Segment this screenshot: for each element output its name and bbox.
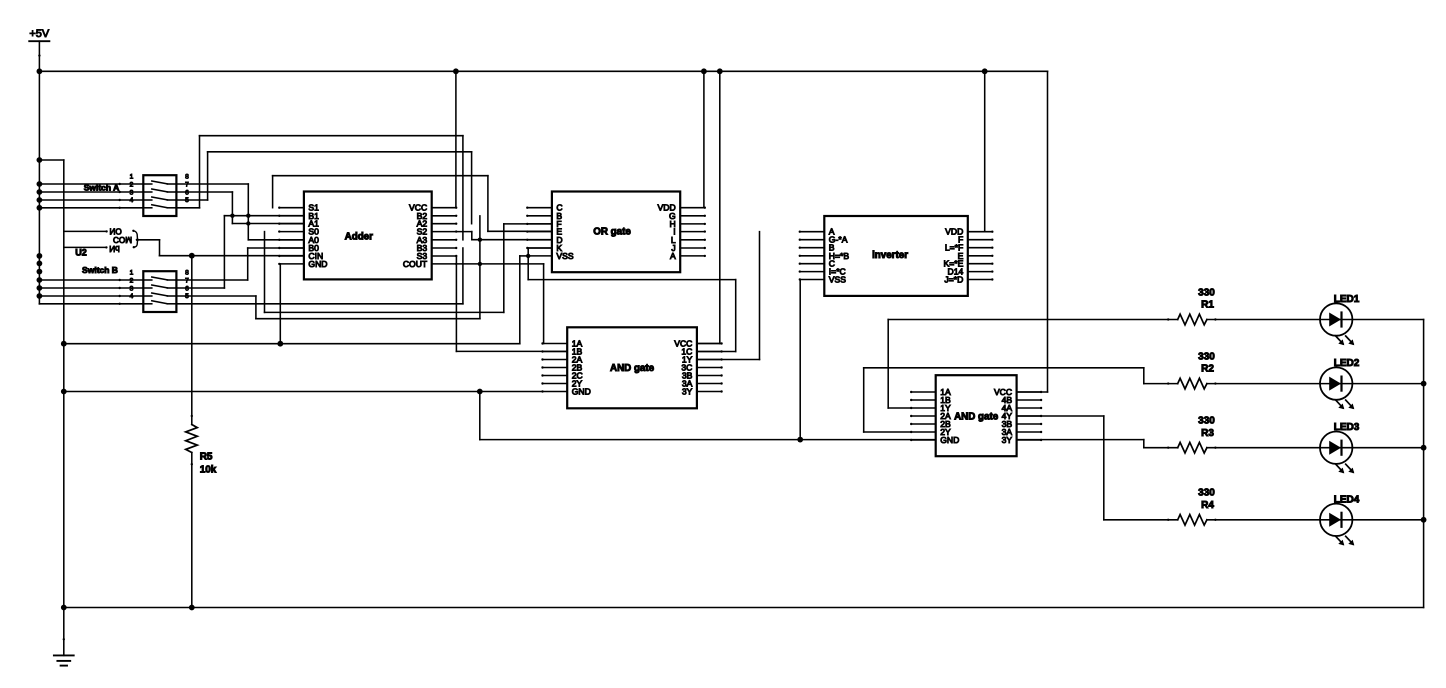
wire: U2 NO pin to +5V net: [64, 230, 108, 232]
AND gate 2 left pin labels: [940, 387, 959, 445]
wire: long left vertical (x=64): [63, 160, 65, 608]
svg-text:COM: COM: [113, 235, 132, 244]
stray junction dot on COUT wire: [478, 262, 482, 266]
junctions on +5V feeder at switch B rows: [37, 277, 43, 299]
stray junction dot on D wire: [478, 238, 482, 242]
svg-text:4: 4: [130, 293, 134, 300]
wire: ground net horizontal (left): [64, 343, 520, 345]
svg-text:+5V: +5V: [29, 28, 50, 40]
adder left pin labels: [308, 203, 327, 269]
wire: switch A pole4 riser to bus1: [176, 136, 199, 208]
adder left pin stubs: [278, 207, 304, 266]
wire: switch B pole2 to B1: [176, 216, 224, 288]
resistor R1: [1167, 314, 1217, 325]
svg-text:8: 8: [185, 269, 189, 276]
wires: switch A left pin wires from +5V feeder: [39, 183, 143, 209]
wire: adder VCC up to +5V rail: [455, 71, 457, 207]
junction inverter VSS at ground wire: [797, 437, 803, 443]
wire: LED1 to right rail: [1352, 319, 1423, 321]
junction bottom rail at left vertical: [61, 605, 67, 611]
switch U2 lever arc: [132, 230, 138, 249]
svg-text:J=*D: J=*D: [944, 275, 963, 285]
wire: switch A pole3 riser to bus2: [176, 152, 207, 200]
junction ground at left vertical: [61, 341, 67, 347]
stray junction dot on B1 wire: [230, 214, 234, 218]
junction LED4 at right rail: [1421, 517, 1427, 523]
wire: R5 top lead from CIN net: [191, 256, 193, 425]
IC U3 AND gate body: [567, 327, 697, 408]
wire: U2 NC pin to ground net: [64, 246, 108, 248]
wire: R4 to LED4: [1207, 519, 1320, 521]
junction at +5V rail left: [37, 68, 43, 74]
wire: R2 to LED2: [1207, 383, 1320, 385]
svg-text:LED4: LED4: [1334, 494, 1360, 505]
ground symbol: [54, 608, 74, 666]
LED LED2: [1320, 367, 1354, 409]
svg-text:3Y: 3Y: [1002, 435, 1013, 445]
junction adder GND to ground wire: [277, 341, 283, 347]
junction LED2 at right rail: [1421, 381, 1427, 387]
svg-text:330: 330: [1198, 287, 1215, 298]
svg-text:R2: R2: [1201, 364, 1214, 375]
svg-text:Adder: Adder: [345, 232, 373, 243]
resistor R4: [1167, 515, 1217, 526]
switch A pin numbers 8-5: [185, 173, 189, 204]
wire: ground net to AND gate U5 GND: [480, 439, 936, 441]
floating junction dots above switch B: [37, 253, 43, 275]
wire: R4 line left lead: [1104, 519, 1178, 521]
AND gate 2 right pin labels: [994, 387, 1012, 445]
wire: OR gate K to AND gate 1C: [528, 248, 736, 352]
wire: A0 from switch A pole1: [248, 239, 304, 241]
wire: R1 to LED1: [1207, 319, 1320, 321]
IC U1 Adder body: [304, 192, 432, 280]
LED LED4: [1320, 504, 1354, 546]
IC U6 inverter body: [824, 216, 968, 296]
wire: S2 jog to OR gate D: [456, 232, 552, 240]
svg-text:10k: 10k: [200, 465, 217, 476]
wire: bus2 (pole3 to A2): [208, 151, 472, 153]
junction rail to AND gate U3 VCC: [717, 68, 723, 74]
wire: inverter VSS down to ground wire: [799, 280, 801, 440]
switch B pin numbers 1-4: [130, 269, 134, 300]
wire: OR gate VSS down to ground wire: [520, 256, 528, 344]
IC U5 AND gate body: [936, 375, 1017, 456]
svg-text:4: 4: [130, 197, 134, 204]
wire: switch A pole1 to A0 (down at x=248): [176, 184, 248, 240]
switch A levers: [143, 181, 176, 208]
wire: R5 bottom lead to ground rail: [191, 453, 193, 608]
junction rail to adder VCC: [453, 68, 459, 74]
svg-text:LED2: LED2: [1334, 358, 1360, 369]
AND gate right pin labels: [674, 339, 692, 397]
inverter right pin labels: [943, 227, 963, 285]
wire: ground jog down: [479, 392, 481, 440]
AND gate 2 right pin stubs: [1017, 391, 1043, 441]
OR gate right pin stubs: [680, 207, 706, 258]
wire: LED3 to right rail: [1352, 447, 1423, 449]
wire: R1 line from 1Y riser to resistor: [888, 319, 1177, 321]
AND gate right pin stubs: [697, 342, 723, 392]
label NC (flipped): [109, 244, 120, 253]
switch B levers: [143, 277, 176, 304]
svg-text:AND gate: AND gate: [610, 363, 655, 374]
svg-text:VSS: VSS: [829, 275, 846, 285]
svg-text:GND: GND: [308, 259, 327, 269]
svg-text:2: 2: [130, 277, 134, 284]
inverter left pin stubs: [799, 231, 825, 281]
OR gate right pin labels: [658, 203, 676, 261]
junction AND GND at left vertical: [61, 389, 67, 395]
svg-text:3Y: 3Y: [682, 387, 693, 397]
IC U4 OR gate body: [552, 192, 680, 273]
wire: R3 line left lead: [1144, 447, 1178, 449]
svg-text:GND: GND: [940, 435, 959, 445]
wire: bus2 drop to A2: [471, 152, 473, 224]
wire: switch A pole2 to A1 (down at x=232): [176, 192, 232, 224]
wire: branch from +5V feeder to ground-side vertical: [39, 159, 63, 161]
wire: adder GND down to ground net: [279, 264, 281, 344]
junctions on +5V feeder at switch A rows: [37, 181, 43, 211]
LED LED1: [1320, 303, 1354, 345]
svg-text:2: 2: [130, 181, 134, 188]
stray junction dot on B1 wire at x=248: [246, 214, 250, 218]
svg-text:R1: R1: [1201, 300, 1214, 311]
wire: AND gate 1C right extension: [697, 351, 736, 353]
wire: A1 from switch A pole2: [232, 223, 304, 225]
junction at branch: [37, 157, 43, 163]
wire: B1 from switch B pole2: [224, 215, 304, 217]
resistor R3: [1167, 442, 1217, 453]
junction R5 at ground rail: [189, 605, 195, 611]
AND gate left pin labels: [572, 339, 591, 397]
adder right pin stubs: [432, 207, 458, 266]
svg-text:Nd: Nd: [109, 244, 120, 253]
svg-text:R5: R5: [200, 452, 213, 463]
inverter left pin labels: [829, 227, 850, 285]
svg-text:1: 1: [130, 269, 134, 276]
wire: inverter VDD up to +5V rail: [984, 71, 986, 231]
svg-text:inverter: inverter: [872, 250, 908, 261]
svg-text:AND gate: AND gate: [954, 411, 999, 422]
svg-text:3: 3: [130, 189, 134, 196]
wire: bus1 (pole4 to A3): [200, 135, 463, 137]
wire: AND gate VCC up to +5V rail: [697, 71, 720, 343]
DIP switch A body: [143, 175, 176, 216]
svg-text:R3: R3: [1201, 428, 1214, 439]
wire: AND gate 2 VCC up to +5V rail: [1017, 71, 1048, 392]
svg-text:330: 330: [1198, 351, 1215, 362]
wire: S3 down to AND gate 1B: [456, 256, 567, 351]
svg-text:LED3: LED3: [1334, 422, 1360, 433]
wire: LED4 to right rail: [1352, 519, 1423, 521]
svg-text:8: 8: [185, 173, 189, 180]
svg-text:330: 330: [1198, 488, 1215, 499]
wire: U2 COM to adder CIN: [136, 239, 304, 256]
OR gate left pin stubs: [526, 207, 552, 258]
wire: LED2 to right rail: [1352, 383, 1423, 385]
wire: bottom ground rail: [64, 607, 1424, 609]
svg-text:6: 6: [185, 189, 189, 196]
wire: R2 line left lead: [1144, 383, 1178, 385]
wire: AND gate 2 2Y riser to R2 line: [864, 368, 1144, 432]
wire: COUT to AND gate 1A: [456, 264, 543, 344]
svg-text:GND: GND: [572, 387, 591, 397]
wire: S1 loop over adder to OR gate E: [273, 176, 552, 232]
inverter right pin stubs: [968, 231, 994, 281]
stray junction dot on A1 wire: [246, 221, 250, 225]
LED LED3: [1320, 432, 1354, 474]
switch A pin numbers 1-4: [130, 173, 134, 204]
adder right pin labels: [403, 203, 428, 269]
wire: R3 to LED3: [1207, 447, 1320, 449]
svg-text:VSS: VSS: [556, 251, 573, 261]
wire: AND gate 2 4Y to R4 line: [1017, 416, 1104, 520]
stray junction dot on VSS wire: [526, 254, 530, 258]
switch B pin numbers 8-5: [185, 269, 189, 300]
svg-text:Switch B: Switch B: [82, 265, 118, 275]
wire: left +5V vertical feeder: [38, 71, 40, 304]
svg-text:7: 7: [185, 181, 189, 188]
wire: AND gate 2 3Y to R3 line: [1017, 440, 1144, 448]
wire: switch B pole1 to B0: [176, 248, 247, 280]
svg-text:6: 6: [185, 285, 189, 292]
junction LED3 at right rail: [1421, 445, 1427, 451]
wire: right return rail: [1423, 320, 1425, 608]
svg-text:330: 330: [1198, 416, 1215, 427]
wire: B0 from switch B pole1: [248, 247, 304, 249]
wires: switch B left pin wires from +5V feeder: [39, 279, 143, 305]
AND gate left pin stubs: [541, 342, 567, 392]
svg-text:1: 1: [130, 173, 134, 180]
resistor R2: [1167, 378, 1217, 389]
wire: OR gate VDD up to +5V rail: [703, 71, 705, 207]
DIP switch B body: [143, 271, 176, 312]
svg-text:LED1: LED1: [1334, 294, 1360, 305]
OR gate left pin labels: [556, 203, 573, 261]
junction ground jog: [477, 389, 483, 395]
wire: S0 down and right to OR gate F: [265, 224, 552, 313]
svg-text:NO: NO: [109, 226, 121, 235]
wire: switch B pole4 to B3 loop: [176, 248, 463, 304]
junction COM wire to R5: [189, 253, 195, 259]
wire: switch B pole3 to B2 loop: [176, 216, 480, 319]
wire: AND gate 2 1Y riser to R1 line: [888, 320, 911, 409]
junction rail to inverter VDD: [982, 68, 988, 74]
wire: +5V top rail: [39, 70, 1047, 72]
resistor R5: [186, 415, 198, 466]
AND gate 2 left pin stubs: [910, 391, 936, 441]
svg-text:R4: R4: [1201, 500, 1214, 511]
svg-text:3: 3: [130, 285, 134, 292]
wire: bus1 drop to A3: [462, 136, 464, 240]
wire: AND gate GND ground wire: [64, 391, 543, 393]
svg-text:7: 7: [185, 277, 189, 284]
junction rail to OR gate VDD: [701, 68, 707, 74]
label COM (flipped): [113, 235, 132, 244]
power symbol +5V: [29, 28, 50, 71]
svg-text:U2: U2: [75, 248, 87, 258]
label NO (flipped): [109, 226, 121, 235]
svg-text:COUT: COUT: [403, 259, 428, 269]
wire: AND gate 1Y to inverter A: [697, 232, 760, 360]
svg-text:OR gate: OR gate: [593, 227, 631, 238]
svg-text:A: A: [670, 251, 676, 261]
